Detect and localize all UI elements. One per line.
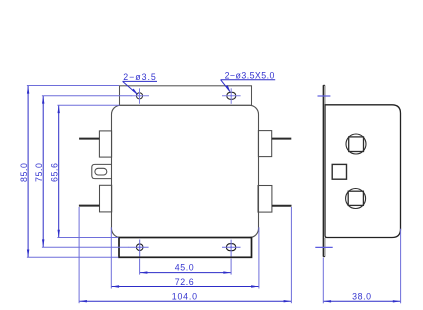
svg-text:85.0: 85.0 [19,162,29,182]
upper-left terminal tab housing [99,131,111,157]
side view: body outline [325,105,401,238]
top-right mounting slot (3.5 x 5.0) [227,92,236,99]
lower-right terminal blade [272,205,292,207]
side view: upper hole centerline tick [318,95,331,97]
leader label 2-dia3.5 (round holes) [123,72,157,95]
lower-left terminal tab housing [100,185,112,212]
centerline cross of top-right slot [222,88,241,104]
bottom-left mounting hole (round, 3.5 dia) [136,244,143,251]
svg-text:104.0: 104.0 [172,292,198,302]
side view: lower hole centerline tick [315,246,332,248]
lower-left terminal blade [79,205,100,207]
svg-text:65.6: 65.6 [50,162,60,182]
leader label 2-dia3.5X5.0 (slots) [221,70,276,92]
ground tab (with oval hole) [92,164,112,178]
side view: ground tab end (small square) [332,164,346,179]
side view: upper terminal (circle with square) [346,134,366,154]
dimension 85.0 (overall height) [19,86,119,258]
dimension 45.0 (hole pitch horizontal) [140,259,232,275]
dimension 65.6 (body height) [50,105,120,237]
dimension 75.0 (hole pitch vertical) [34,96,131,247]
svg-text:75.0: 75.0 [34,162,44,182]
side view: lower terminal (circle with square) [346,189,366,209]
upper-left terminal blade [79,138,99,140]
svg-text:45.0: 45.0 [175,262,195,272]
side view: mounting bracket edge [323,85,325,256]
upper-right terminal tab housing [258,131,271,157]
svg-text:38.0: 38.0 [352,292,372,302]
lower-right terminal tab housing [258,186,272,213]
dimension 38.0 (depth, side view) [323,229,400,304]
top-left mounting hole (round, 3.5 dia) [136,93,142,99]
centerline cross of bottom-right slot [222,240,241,257]
front view: main body [112,105,259,237]
svg-text:72.6: 72.6 [175,277,195,287]
dimension 72.6 (body width) [111,227,259,288]
upper-right terminal blade [272,138,292,140]
svg-text:2−ø3.5X5.0: 2−ø3.5X5.0 [225,70,275,80]
svg-text:2−ø3.5: 2−ø3.5 [123,72,157,82]
bottom-right mounting slot (3.5 x 5.0) [226,244,235,251]
front view: bottom mounting flange [119,238,252,258]
dimension 104.0 (overall width) [79,207,291,303]
centerline cross of bottom-left hole [129,240,149,257]
front view: top mounting flange [120,86,252,106]
centerline cross of top-left hole [131,88,149,103]
